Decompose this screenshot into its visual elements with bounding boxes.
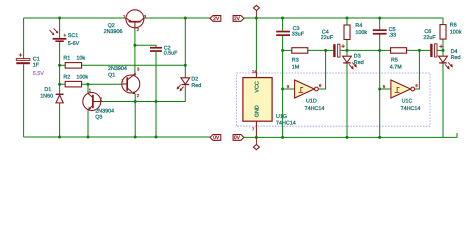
svg-text:R3: R3 (292, 58, 299, 64)
svg-text:D1: D1 (44, 87, 51, 93)
wire: U1C input stub (380, 88, 391, 90)
node: GND bottom rail junction (255, 136, 258, 139)
global label 0V (left section) (210, 135, 221, 142)
power flag (top) (253, 5, 259, 17)
LED D4 (439, 49, 461, 70)
wire: R3 left lead (283, 49, 292, 51)
node: D1 bottom rail junction (58, 136, 61, 139)
node: C5/R5 junction (378, 49, 381, 52)
svg-text:.33: .33 (389, 33, 397, 39)
svg-text:1F: 1F (33, 63, 40, 69)
node: D3 bottom rail junction (346, 136, 349, 139)
svg-text:22uF: 22uF (423, 35, 436, 41)
node: SC1 top rail junction (58, 17, 61, 20)
transistor Q3 (83, 88, 114, 121)
node: Q2 base / C2 / Q1 collector junction (133, 44, 136, 47)
wire: left rail below C1 (23, 64, 25, 137)
IC power unit U1G 74HC14 (243, 69, 296, 136)
resistor R5 (390, 48, 407, 71)
node: Q1 emitter / Q3 base junction (134, 100, 137, 103)
wire: C2 bottom to bottom rail (155, 52, 157, 137)
svg-text:1M: 1M (292, 65, 300, 71)
svg-text:D4: D4 (451, 49, 458, 55)
svg-text:2V: 2V (213, 16, 220, 22)
svg-text:2V: 2V (234, 16, 241, 22)
node: VCC top rail junction (255, 17, 258, 20)
node: U1D column bottom rail junction (281, 136, 284, 139)
node: C5 top rail junction (378, 17, 381, 20)
wire: U1D output riser (318, 50, 325, 89)
wire: left top rail (2V net) (24, 17, 126, 19)
node: C2 bottom rail junction (155, 136, 158, 139)
LED D3 (343, 53, 364, 69)
svg-text:33uF: 33uF (292, 32, 305, 38)
global label 0V (right section) (233, 135, 244, 142)
wire: R4 bottom lead (346, 40, 348, 51)
node: C5 column bottom rail junction (378, 136, 381, 139)
wire: C6 right lead (437, 49, 443, 51)
node: C4/R4/D3 junction (346, 49, 349, 52)
LED D2 (177, 76, 202, 91)
node: R1 right / D2 anode junction (184, 64, 187, 67)
wire: D3 top lead (346, 50, 348, 56)
capacitor C4 (321, 29, 345, 57)
wire: Q1 emitter down to bottom rail (134, 94, 136, 137)
svg-text:74HC14: 74HC14 (276, 121, 296, 127)
wire: node A down to Q1 collector (134, 45, 136, 75)
svg-text:Q3: Q3 (95, 115, 102, 121)
node: C2 / Q3 base line junction (155, 100, 158, 103)
wire: R1 left lead (60, 64, 66, 66)
svg-text:22uF: 22uF (321, 35, 334, 41)
svg-text:GND: GND (255, 105, 261, 117)
wire: R2 left lead (60, 83, 66, 85)
svg-text:0V: 0V (234, 135, 241, 141)
wire: top rail right of Q2 to 2V label (144, 17, 210, 19)
wire: bottom rail (0V net) (24, 136, 210, 138)
wire: C5 top lead (379, 18, 381, 29)
node: C3 top rail junction (281, 17, 284, 20)
svg-text:2N3904: 2N3904 (108, 66, 127, 72)
svg-text:Q1: Q1 (108, 72, 115, 78)
node: U1C output mid junction (418, 49, 421, 52)
svg-text:R1: R1 (63, 55, 70, 61)
svg-text:R6: R6 (450, 23, 457, 29)
svg-text:5-6V: 5-6V (68, 41, 80, 47)
wire: Q2 base down to node A (134, 29, 136, 46)
wire: U1D input stub (283, 88, 295, 90)
svg-text:100k: 100k (450, 30, 462, 36)
transistor Q2 (104, 10, 147, 35)
wire: Q3 base line to D2 bottom (101, 85, 186, 102)
global label 2V (right section) (233, 16, 244, 23)
node: C6/R6/D4 junction (442, 49, 445, 52)
svg-text:100k: 100k (76, 75, 88, 81)
wire: Q3 emitter to bottom rail (87, 110, 89, 137)
wire: VCC drop to U1G (255, 18, 257, 72)
svg-text:R2: R2 (63, 75, 70, 81)
svg-text:10k: 10k (76, 55, 85, 61)
solar cell SC1 (50, 28, 80, 47)
wire: C3 bottom to mid rail (282, 36, 284, 51)
power flag (bottom) (253, 139, 259, 150)
svg-text:2N3906: 2N3906 (104, 29, 123, 35)
svg-text:2N3904: 2N3904 (95, 108, 114, 114)
svg-text:VCC: VCC (255, 81, 261, 92)
svg-text:SC1: SC1 (68, 33, 79, 39)
svg-text:U1C: U1C (402, 98, 413, 104)
svg-text:1N60: 1N60 (40, 94, 53, 100)
wire: U1G GND tail (255, 135, 257, 138)
node: C3/R3 mid junction (281, 49, 284, 52)
wire: R1 right lead to D2 column (82, 64, 186, 66)
resistor R2 (63, 75, 88, 87)
svg-text:D3: D3 (354, 53, 361, 59)
svg-text:C1: C1 (33, 56, 40, 62)
wire: R2 right lead to Q1 base (82, 83, 122, 85)
wire: SC1 to R1/R2 taps and D1 (59, 42, 61, 95)
svg-text:5.5V: 5.5V (33, 71, 44, 77)
node: D2 top rail junction (184, 17, 187, 20)
wire: Q3 collector riser (87, 84, 89, 92)
wire: C4 right to R5 (340, 49, 391, 51)
diode D1 (40, 87, 63, 103)
node: R4 top rail junction (346, 17, 349, 20)
svg-text:Red: Red (451, 55, 461, 61)
wire: D4 top lead (442, 50, 444, 56)
svg-text:D2: D2 (191, 76, 198, 82)
wire: R3 right lead to C4 (308, 49, 333, 51)
wire: U1C output riser (415, 50, 420, 89)
svg-text:Red: Red (354, 60, 364, 66)
wire: right bottom rail (0V net) (244, 133, 457, 137)
wire: right top rail (2V net) (244, 18, 443, 25)
capacitor C5 (373, 27, 396, 38)
wire: D3 bottom to 0V rail (346, 63, 348, 137)
node: U1C input junction (378, 88, 381, 91)
node: R2 right / Q1 base / Q3 collector junction (87, 83, 90, 86)
wire: C5 bottom / U1C input column (379, 35, 381, 138)
op-amp U1D 74HC14 schmitt inverter (287, 80, 325, 112)
selection box (blue dashed) (237, 73, 431, 126)
capacitor C1 (16, 53, 44, 77)
wire: R4 top lead (346, 18, 348, 25)
wire: node A to C2 top (135, 45, 156, 47)
resistor R4 (344, 23, 367, 40)
wire: R6 bottom lead (442, 39, 444, 50)
wire: C3 top lead (282, 18, 284, 31)
resistor R1 (63, 55, 85, 68)
svg-text:100k: 100k (355, 30, 367, 36)
resistor R6 (440, 23, 462, 39)
svg-text:74HC14: 74HC14 (305, 106, 325, 112)
svg-text:R4: R4 (355, 23, 362, 29)
wire: D4 bottom to 0V rail (442, 63, 444, 137)
svg-text:U1D: U1D (306, 98, 317, 104)
capacitor C2 (150, 45, 178, 56)
node: U1D output mid junction (324, 49, 327, 52)
wire: R5 right lead to C6 (407, 49, 431, 51)
wire: U1D input column (282, 50, 284, 137)
node: Q3 emitter bottom rail junction (87, 136, 90, 139)
node: Q1 emitter bottom rail junction (134, 136, 137, 139)
svg-text:4.7M: 4.7M (390, 65, 402, 71)
svg-text:0.5uF: 0.5uF (164, 51, 178, 57)
transistor Q1 (108, 66, 140, 98)
wire: left rail above C1 (23, 18, 25, 59)
svg-text:0V: 0V (213, 135, 220, 141)
svg-text:Q2: Q2 (108, 23, 115, 29)
svg-text:14: 14 (252, 69, 257, 74)
node: R1 left junction (58, 64, 61, 67)
wire: D2 top lead from top rail (184, 18, 186, 78)
wire: SC1 rail top (59, 18, 61, 38)
global label 2V (left section) (210, 16, 221, 23)
capacitor C3 (276, 26, 305, 38)
op-amp U1C 74HC14 schmitt inverter (383, 80, 420, 112)
svg-text:Red: Red (191, 83, 201, 89)
node: U1D input junction (281, 88, 284, 91)
svg-text:U1G: U1G (276, 114, 287, 120)
capacitor C6 (423, 29, 443, 57)
svg-text:74HC14: 74HC14 (401, 106, 421, 112)
resistor R3 (292, 48, 308, 71)
svg-text:R5: R5 (391, 58, 398, 64)
node: R2 left junction (58, 83, 61, 86)
wire: below D1 to bottom rail (59, 103, 61, 137)
